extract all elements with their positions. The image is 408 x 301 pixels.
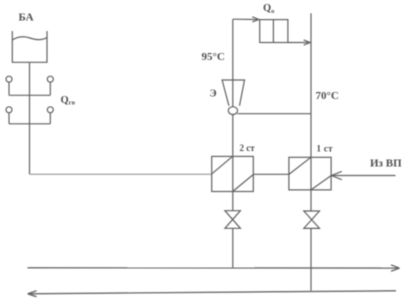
- svg-text:Qгв: Qгв: [61, 95, 76, 107]
- svg-text:95°С: 95°С: [202, 51, 225, 63]
- svg-text:Из ВП: Из ВП: [370, 158, 402, 170]
- svg-text:2 ст: 2 ст: [240, 143, 256, 153]
- svg-text:Э: Э: [210, 89, 217, 100]
- svg-text:70°С: 70°С: [316, 90, 339, 102]
- svg-text:БА: БА: [19, 11, 34, 23]
- svg-text:1 ст: 1 ст: [317, 144, 334, 154]
- svg-text:Qо: Qо: [263, 3, 274, 15]
